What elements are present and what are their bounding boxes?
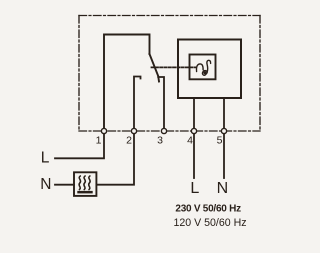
heater squiggle 1 xyxy=(79,176,81,190)
switch blade (moving contact) xyxy=(150,54,160,82)
heater squiggle 2 xyxy=(84,176,86,190)
enclosure dashed border bottom xyxy=(79,130,260,132)
enclosure dashed border top xyxy=(79,15,260,17)
svg-text:230 V 50/60 Hz: 230 V 50/60 Hz xyxy=(175,203,241,214)
heater squiggle 3 xyxy=(89,176,91,190)
theta loop ink blob xyxy=(203,71,206,74)
svg-text:N: N xyxy=(40,176,51,193)
svg-text:N: N xyxy=(217,180,229,197)
enclosure dashed border right xyxy=(259,16,261,132)
svg-text:1: 1 xyxy=(96,135,102,147)
contact of terminal 2 (open) xyxy=(134,77,141,129)
svg-text:L: L xyxy=(190,180,199,197)
svg-text:3: 3 xyxy=(157,135,163,147)
wire thermostat to terminal 5 xyxy=(223,98,225,128)
svg-text:L: L xyxy=(41,150,50,167)
wire N load to heater xyxy=(55,184,74,186)
svg-text:120 V 50/60 Hz: 120 V 50/60 Hz xyxy=(174,217,247,229)
wire feed from terminal 1 up and over to switch pivot xyxy=(104,35,150,129)
svg-text:4: 4 xyxy=(187,135,193,147)
svg-text:2: 2 xyxy=(126,135,132,147)
theta glyph xyxy=(196,60,210,75)
mechanical link dotted line to thermostat xyxy=(152,66,196,68)
wire L load to terminal 1 xyxy=(55,134,104,159)
heater bottom bar xyxy=(77,191,92,194)
terminal 1 xyxy=(101,128,106,133)
thermostat outer box U1 xyxy=(178,40,241,99)
wire thermostat to terminal 4 xyxy=(193,98,195,128)
wire heater to terminal 2 xyxy=(96,134,134,185)
heater box xyxy=(74,172,96,196)
thermostat inner box (sensor) xyxy=(190,55,216,80)
svg-text:5: 5 xyxy=(217,135,223,147)
wire terminal 5 down to N supply xyxy=(223,134,225,178)
terminal 4 xyxy=(191,128,196,133)
terminal 2 xyxy=(131,128,136,133)
terminal 3 xyxy=(161,128,166,133)
enclosure dashed border left xyxy=(78,16,80,132)
wire terminal 4 down to L supply xyxy=(193,134,195,178)
contact of terminal 3 (closed) xyxy=(158,77,164,128)
terminal 5 xyxy=(221,128,226,133)
